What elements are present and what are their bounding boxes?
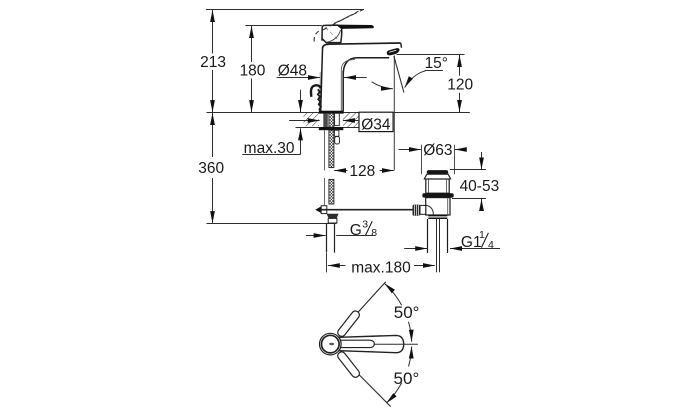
faucet base plate — [319, 111, 344, 114]
max.180 arrows — [328, 265, 346, 267]
dimension 213 line — [212, 10, 214, 54]
svg-text:50°: 50° — [394, 303, 420, 322]
pop-up flange band — [422, 193, 453, 197]
dimension 360 line — [212, 113, 214, 157]
pop-up vertical rod — [436, 219, 438, 272]
shank small fitting — [334, 130, 339, 136]
mounting shank left — [323, 113, 328, 127]
lever handle (down position) — [338, 25, 374, 29]
Ø34 right arrow — [343, 120, 359, 122]
max.180 left extension line — [326, 253, 328, 272]
extension line 360 bottom — [207, 223, 337, 225]
svg-text:213: 213 — [200, 54, 226, 71]
pop-up collar — [424, 174, 450, 179]
lever raised dashed line 1 — [322, 11, 359, 30]
extension line top (213 max height) — [206, 9, 364, 11]
aerator — [387, 48, 400, 55]
G1 1/4 left arrow — [404, 248, 427, 250]
water spray 15 degree slant line — [394, 55, 404, 93]
svg-text:G: G — [350, 222, 362, 239]
svg-text:180: 180 — [240, 62, 266, 79]
svg-text:8: 8 — [371, 227, 377, 239]
mounting nut washer — [319, 127, 344, 130]
pop-up pull rod hook — [311, 85, 321, 97]
counter top line — [207, 112, 470, 114]
top view: upper 50 arc — [385, 284, 402, 306]
dimension 120 line — [459, 55, 461, 76]
pop-up tailpipe — [427, 219, 429, 253]
pop-up rod elbow fitting — [315, 206, 321, 213]
dimension 40-53 extension lines — [450, 169, 486, 171]
svg-text:Ø63: Ø63 — [423, 142, 452, 159]
supply hose gray line lower — [324, 178, 326, 205]
svg-text:1: 1 — [479, 229, 485, 241]
counter underside line left — [296, 127, 320, 129]
G1 1/4 underline arrow — [450, 248, 500, 250]
counter underside line right — [343, 127, 360, 129]
15 degree angle arc arrow — [372, 82, 393, 89]
15 degree leader arrow — [405, 71, 426, 88]
extension line aerator (120 top) — [394, 54, 465, 56]
cartridge block interior lines — [325, 27, 339, 40]
top view: lever rotated down 50 — [336, 350, 361, 378]
dimension 40-53 arrows — [481, 152, 483, 169]
top view: lever inner detail — [340, 340, 375, 347]
pop-up bottom lip — [428, 215, 447, 217]
svg-text:128: 128 — [349, 163, 375, 180]
pop-up lower body — [426, 198, 450, 215]
svg-text:15°: 15° — [425, 55, 448, 72]
pop-up horizontal rod — [322, 209, 413, 211]
top view: center slot — [329, 343, 334, 345]
svg-text:Ø48: Ø48 — [278, 62, 307, 79]
counter hatch left — [304, 113, 320, 126]
svg-text:40-53: 40-53 — [460, 178, 500, 195]
supply hose gray line upper — [324, 130, 326, 170]
top view: lever plan outline — [340, 335, 404, 352]
svg-text:50°: 50° — [394, 369, 420, 388]
counter hatch right — [343, 113, 359, 127]
svg-text:3: 3 — [362, 219, 368, 231]
top view: horizontal reference line — [374, 343, 418, 345]
pop-up drain: Ø63 extension lines — [421, 145, 423, 175]
pop-up upper cylinder — [426, 179, 449, 193]
max.30 leader and arrows — [300, 132, 302, 155]
G3/8 arrow — [306, 235, 326, 237]
cartridge block — [322, 25, 342, 42]
supply hose braided upper — [329, 130, 334, 167]
Ø34 left arrow — [289, 120, 320, 122]
top view: lower 50 arc — [409, 347, 412, 367]
extension line lever top (180) — [245, 25, 321, 27]
mounting shank right — [335, 113, 340, 125]
lever raised dashed arc — [314, 30, 321, 42]
svg-text:120: 120 — [447, 77, 473, 94]
lever raised dashed line 2 — [334, 9, 364, 23]
dimension 180 line — [251, 26, 253, 62]
faucet body inner shading line — [341, 60, 355, 112]
pop-up knob collar — [420, 205, 426, 214]
svg-text:max.180: max.180 — [351, 259, 411, 276]
top view: lever rotated up 50 — [336, 310, 361, 338]
hose compression nut — [327, 214, 339, 219]
Ø48 right arrow — [344, 77, 367, 79]
top view: swivel rays — [339, 282, 386, 334]
supply hose braided lower — [329, 179, 334, 204]
svg-text:360: 360 — [198, 160, 224, 177]
shank knob — [335, 137, 340, 145]
mounting shank threaded hose — [329, 113, 334, 127]
water stream vertical line — [393, 55, 395, 171]
pop-up knurled knob — [413, 205, 421, 216]
pop-up plug cap — [427, 170, 448, 174]
hose G3/8 tube — [326, 223, 328, 253]
svg-text:Ø34: Ø34 — [361, 116, 391, 133]
pull rod zigzag — [318, 89, 322, 112]
G3/8 underline — [336, 235, 375, 237]
faucet body outline — [323, 43, 401, 49]
faucet pull rod line — [319, 72, 321, 111]
dimension 128 arrows — [334, 170, 347, 172]
faucet body fill — [321, 43, 402, 111]
Ø34 box — [359, 112, 393, 131]
Ø48 left arrow — [307, 77, 321, 79]
top view: faucet body circle — [320, 333, 342, 355]
